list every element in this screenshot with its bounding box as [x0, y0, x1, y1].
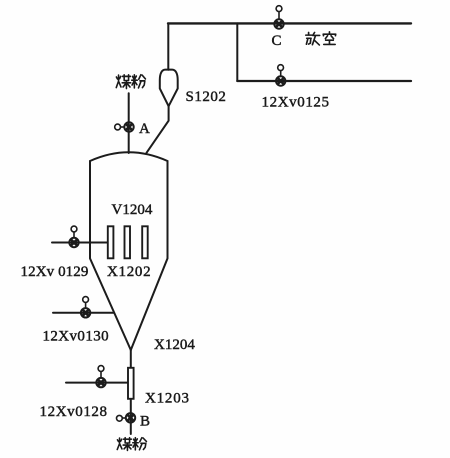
label 煤粉 (coal powder) bottom [117, 438, 146, 451]
valve C [274, 6, 283, 29]
svg-text:V1204: V1204 [112, 202, 153, 218]
valve 12Xv0129 [69, 226, 78, 247]
wire: second vent line [237, 80, 411, 82]
svg-text:A: A [139, 121, 150, 137]
valve B [117, 413, 136, 422]
wire: 12Xv0129 line into vessel [52, 242, 108, 244]
cyclone S1202 [160, 70, 178, 107]
wire: cone tip to X1203 [130, 350, 132, 368]
valve 12Xv0125 [276, 65, 285, 86]
vessel V1204 [90, 152, 168, 350]
label 放空 (vent) [306, 32, 336, 45]
label 煤粉 (coal powder) top [116, 75, 145, 89]
wire: vent header top [168, 22, 411, 24]
valve A [115, 122, 134, 131]
svg-text:S1202: S1202 [186, 89, 227, 105]
wire: X1203 outlet down [130, 399, 132, 434]
internal element X1202 bar 1 [108, 226, 114, 258]
svg-text:X1204: X1204 [154, 337, 195, 353]
svg-text:B: B [140, 414, 150, 430]
valve 12Xv0130 [81, 297, 90, 318]
svg-text:12Xv0130: 12Xv0130 [43, 329, 110, 345]
internal element X1202 bar 2 [125, 226, 131, 258]
svg-text:12Xv0128: 12Xv0128 [40, 404, 108, 420]
svg-text:X1202: X1202 [107, 264, 151, 280]
valve 12Xv0128 [96, 366, 105, 388]
svg-text:C: C [272, 33, 282, 49]
svg-text:X1203: X1203 [145, 391, 190, 407]
svg-text:12Xv0125: 12Xv0125 [262, 95, 330, 111]
wire: coal feed line into vessel top [128, 93, 130, 153]
svg-text:12Xv 0129: 12Xv 0129 [21, 264, 89, 280]
wire: cyclone outlet to vessel [147, 106, 169, 153]
wire: drop from header to cyclone [167, 23, 169, 69]
wire: branch vertical to second vent line [236, 23, 238, 81]
wire: 12Xv0128 line to X1203 [66, 382, 128, 384]
internal element X1202 bar 3 [142, 226, 148, 258]
feeder X1203 body [128, 368, 134, 399]
wire: 12Xv0130 line into cone [53, 312, 114, 314]
